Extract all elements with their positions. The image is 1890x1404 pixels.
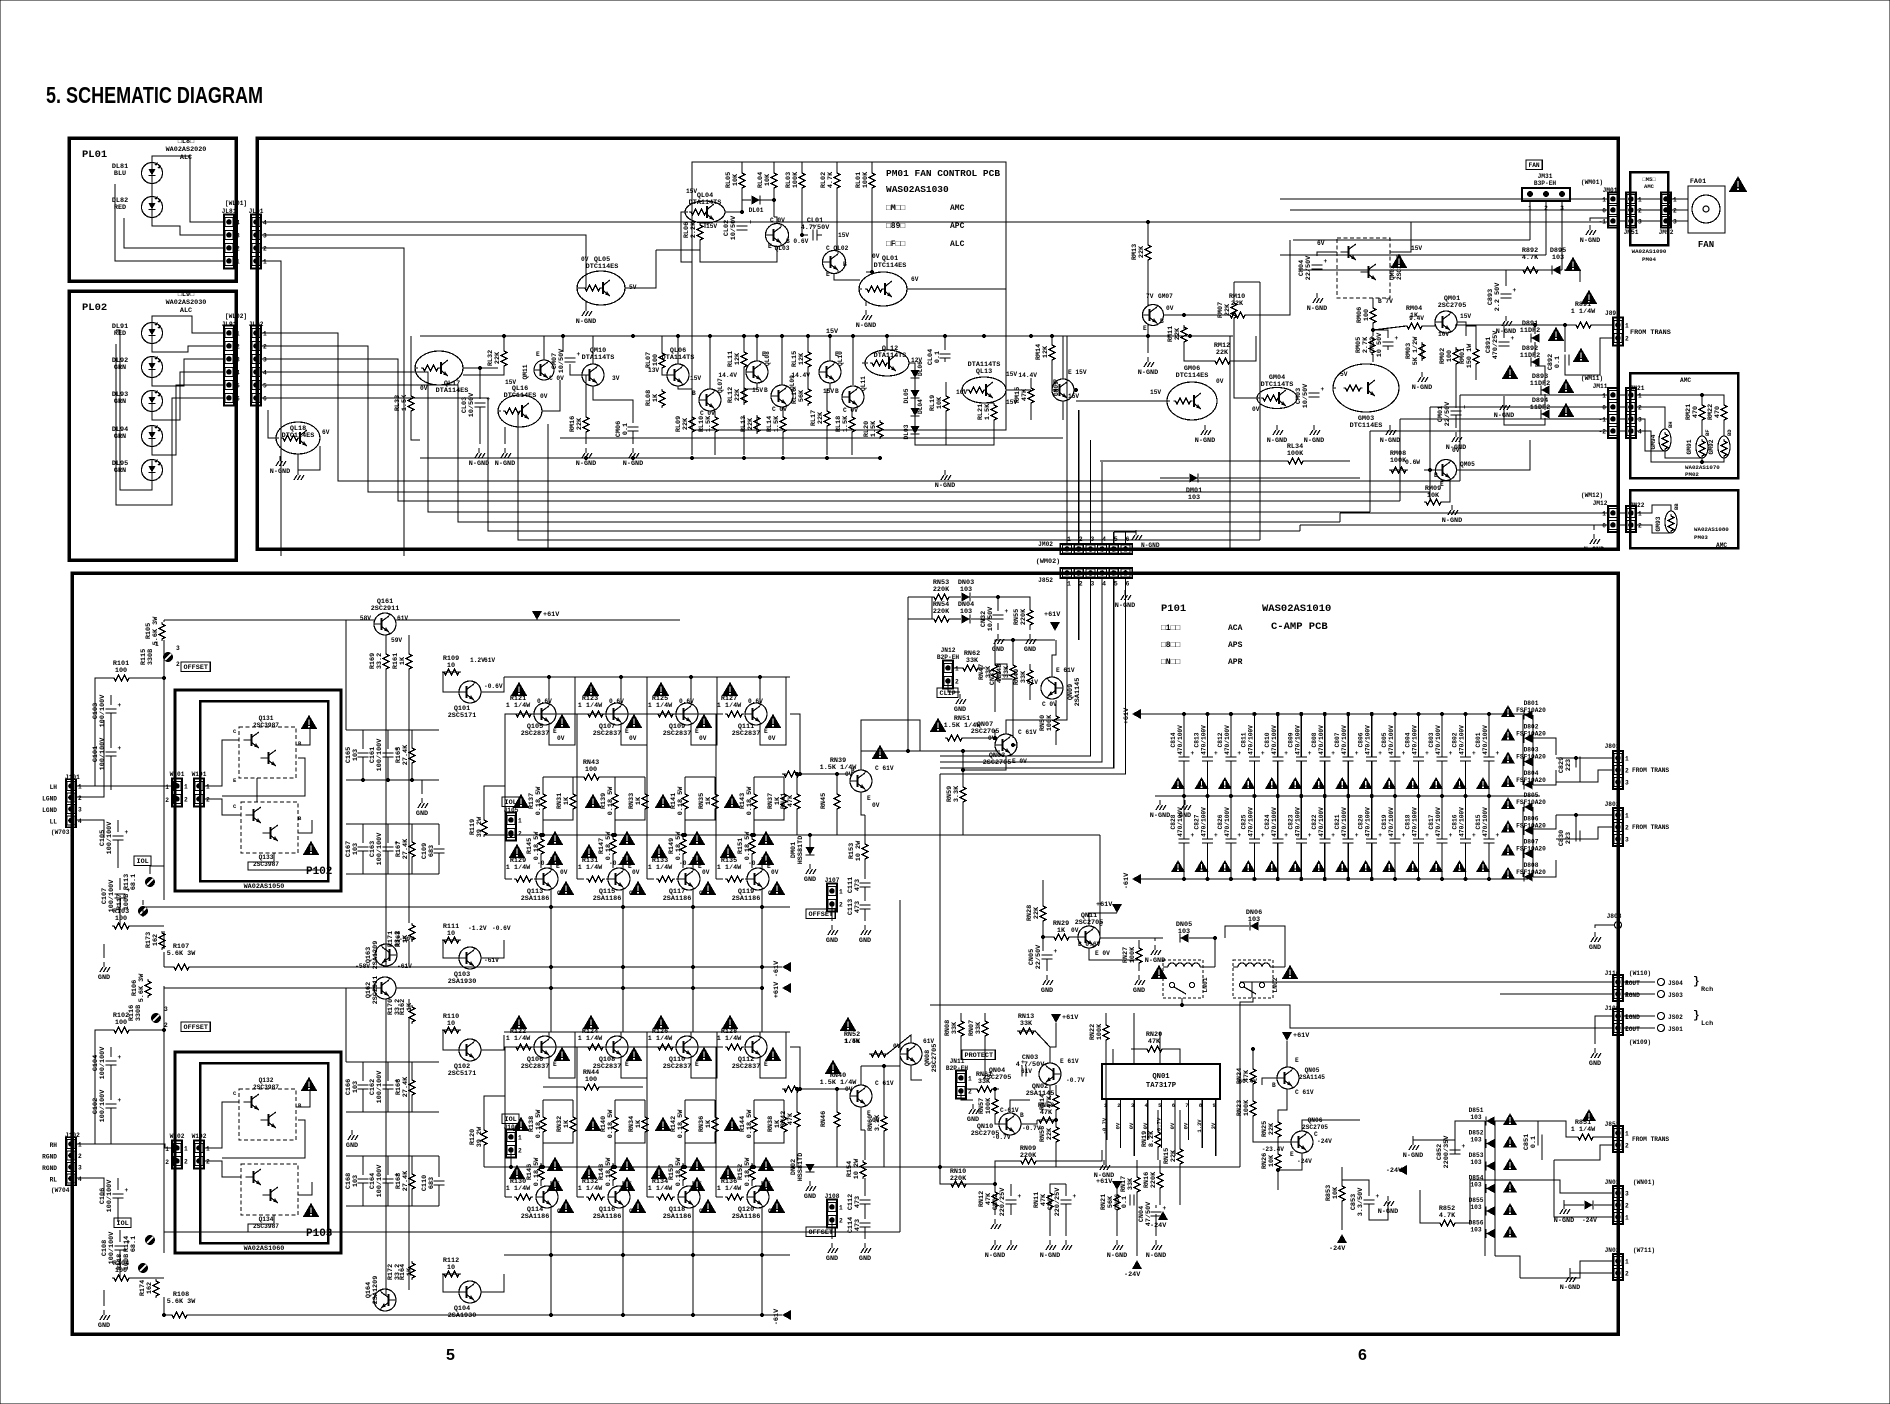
svg-text:1 1/4W: 1 1/4W bbox=[506, 864, 531, 872]
svg-text:E: E bbox=[768, 243, 772, 250]
svg-text:100/100V: 100/100V bbox=[376, 1164, 384, 1198]
svg-text:2: 2 bbox=[165, 797, 169, 804]
svg-text:LGND: LGND bbox=[42, 807, 57, 814]
svg-text:2SA1186: 2SA1186 bbox=[732, 895, 761, 903]
wire collector Q111 bbox=[759, 677, 761, 703]
svg-text:470/100V: 470/100V bbox=[1365, 725, 1372, 755]
module box PM02 bbox=[1630, 373, 1738, 478]
svg-text:E: E bbox=[536, 351, 540, 358]
svg-text:FA01: FA01 bbox=[1690, 178, 1706, 186]
svg-text:WA02AS1080: WA02AS1080 bbox=[1694, 526, 1729, 533]
svg-text:+: + bbox=[1331, 832, 1335, 839]
svg-text:IOL: IOL bbox=[505, 799, 517, 807]
svg-text:DL03: DL03 bbox=[903, 424, 910, 439]
jack JS01 bbox=[1658, 1025, 1665, 1032]
svg-text:1: 1 bbox=[184, 1146, 188, 1153]
svg-text:4: 4 bbox=[1102, 581, 1106, 588]
svg-text:5K 1/2W: 5K 1/2W bbox=[1412, 336, 1420, 365]
svg-text:100/100V: 100/100V bbox=[106, 1179, 114, 1213]
warning triangle R136 bbox=[720, 1165, 737, 1179]
svg-text:+: + bbox=[125, 829, 129, 836]
svg-text:1K: 1K bbox=[635, 1119, 643, 1128]
svg-text:6: 6 bbox=[1126, 536, 1130, 543]
svg-text:6: 6 bbox=[263, 396, 267, 403]
svg-text:0.18 5W: 0.18 5W bbox=[535, 786, 543, 815]
pin 2 QN01 bbox=[1120, 1099, 1122, 1110]
svg-text:1: 1 bbox=[206, 784, 210, 791]
wires 15V stage bbox=[503, 336, 505, 349]
svg-text:10 2W: 10 2W bbox=[855, 840, 863, 861]
svg-text:2: 2 bbox=[1625, 1143, 1629, 1150]
wire collector Q107 bbox=[620, 677, 622, 703]
warning triangle RN52 bbox=[840, 1017, 857, 1031]
svg-text:15V: 15V bbox=[826, 328, 839, 336]
ground GND JN11 bbox=[969, 1104, 979, 1114]
svg-text:2SC2837: 2SC2837 bbox=[663, 1063, 692, 1071]
ground N-GND DL03 bbox=[941, 470, 951, 480]
svg-text:E 15V: E 15V bbox=[1068, 369, 1087, 376]
svg-text:0.18 5W: 0.18 5W bbox=[605, 1157, 613, 1186]
svg-text:2SA1209: 2SA1209 bbox=[372, 1276, 380, 1305]
wires left input L bbox=[130, 677, 164, 679]
node rail mid bank bbox=[1155, 795, 1540, 797]
warning triangle R151 bbox=[758, 831, 775, 845]
wires J851 bbox=[1490, 1121, 1576, 1137]
wires P102 internal bbox=[205, 740, 239, 786]
hybrid module P102 inner bbox=[200, 701, 328, 881]
power flag +61V RN13 bbox=[1051, 1014, 1061, 1023]
svg-text:22K: 22K bbox=[1170, 1149, 1178, 1162]
svg-text:470/100V: 470/100V bbox=[1177, 807, 1184, 837]
svg-text:2: 2 bbox=[839, 1218, 843, 1225]
svg-text:2SC5171: 2SC5171 bbox=[448, 1070, 477, 1078]
svg-text:GND: GND bbox=[98, 1322, 110, 1330]
capacitor C811 470/100V bbox=[1253, 714, 1255, 757]
svg-text:2: 2 bbox=[184, 797, 188, 804]
warning triangle C822 bbox=[1312, 860, 1326, 872]
svg-text:C817: C817 bbox=[1428, 814, 1435, 829]
svg-text:B: B bbox=[851, 768, 855, 775]
capacitor C821 470/100V bbox=[1347, 796, 1349, 839]
svg-text:+: + bbox=[1018, 1193, 1022, 1200]
capacitor C808 470/100V bbox=[1324, 714, 1326, 757]
svg-text:+: + bbox=[1191, 832, 1195, 839]
svg-text:B: B bbox=[298, 740, 302, 747]
ground N-GND DN05 bbox=[1151, 945, 1161, 955]
capacitor C820 470/100V bbox=[1371, 796, 1373, 839]
svg-text:+: + bbox=[577, 351, 581, 358]
svg-text:2: 2 bbox=[206, 797, 210, 804]
svg-text:1: 1 bbox=[155, 641, 159, 648]
svg-text:1 1/4W: 1 1/4W bbox=[578, 1185, 603, 1193]
main board outline bottom bbox=[72, 573, 1618, 1334]
svg-text:C: C bbox=[1099, 921, 1103, 928]
svg-text:+61V: +61V bbox=[773, 981, 781, 998]
svg-text:1: 1 bbox=[955, 666, 959, 673]
svg-text:E 61V: E 61V bbox=[1056, 667, 1075, 674]
svg-text:100/100V: 100/100V bbox=[376, 1070, 384, 1104]
svg-text:WA02AS1090: WA02AS1090 bbox=[1632, 248, 1667, 255]
svg-text:IOL: IOL bbox=[137, 858, 149, 866]
svg-text:C815: C815 bbox=[1475, 814, 1482, 829]
wire JL01 pin4 bus bbox=[262, 221, 1607, 223]
svg-text:22K: 22K bbox=[747, 417, 755, 430]
svg-text:162: 162 bbox=[146, 1282, 154, 1294]
svg-text:N-GND: N-GND bbox=[495, 460, 515, 468]
wires resistor row R 3 bbox=[753, 1100, 755, 1115]
svg-text:1K: 1K bbox=[563, 796, 571, 805]
inter-bank column wires bbox=[550, 907, 552, 1032]
svg-text:15V: 15V bbox=[1150, 389, 1161, 396]
svg-text:BH: BH bbox=[1667, 421, 1674, 428]
wire Q120 bbox=[761, 1181, 763, 1186]
svg-text:470/100V: 470/100V bbox=[1412, 807, 1419, 837]
svg-text:10V: 10V bbox=[1438, 331, 1449, 338]
svg-text:1.5K: 1.5K bbox=[984, 403, 992, 420]
svg-text:WAS02AS1030: WAS02AS1030 bbox=[886, 184, 949, 195]
svg-text:0V: 0V bbox=[872, 802, 880, 809]
svg-text:QL11: QL11 bbox=[860, 376, 867, 391]
ground N-GND mid1 bbox=[582, 448, 592, 458]
svg-text:N-GND: N-GND bbox=[1554, 1217, 1574, 1225]
capacitor C805 470/100V bbox=[1394, 714, 1396, 757]
svg-text:1: 1 bbox=[1602, 197, 1606, 204]
wires bus to JM02 bbox=[1066, 336, 1068, 543]
warning triangle R150 pair bbox=[689, 1157, 706, 1171]
svg-text:2: 2 bbox=[184, 1159, 188, 1166]
svg-text:0V: 0V bbox=[540, 393, 548, 400]
svg-text:J851: J851 bbox=[1605, 1121, 1620, 1128]
svg-text:100: 100 bbox=[585, 766, 597, 774]
svg-text:JM52: JM52 bbox=[1659, 229, 1674, 236]
svg-text:47K: 47K bbox=[1243, 1069, 1251, 1082]
svg-text:C823: C823 bbox=[1287, 814, 1294, 829]
svg-text:FROM TRANS: FROM TRANS bbox=[1632, 1136, 1669, 1143]
ground N-GND QL05 bbox=[582, 306, 592, 316]
svg-text:GND: GND bbox=[1024, 646, 1036, 654]
svg-text:0.18 5W: 0.18 5W bbox=[533, 1157, 541, 1186]
ground N-GND CM01 bbox=[1452, 432, 1462, 442]
svg-text:GND: GND bbox=[826, 937, 838, 945]
svg-text:13V: 13V bbox=[648, 367, 659, 374]
warning triangle R891 bbox=[1581, 290, 1598, 304]
svg-text:3.3K: 3.3K bbox=[953, 785, 961, 802]
svg-text:0.18 5W: 0.18 5W bbox=[675, 1157, 683, 1186]
svg-text:[WL01]: [WL01] bbox=[225, 200, 247, 207]
transistor Q104 2SA1930 bbox=[459, 1281, 481, 1303]
svg-text:B 7V: B 7V bbox=[1378, 298, 1393, 305]
wire LGND input bbox=[77, 720, 104, 797]
collector bus L lower bbox=[504, 906, 790, 908]
svg-text:E 61V: E 61V bbox=[1060, 1058, 1079, 1065]
svg-text:N-GND: N-GND bbox=[1580, 237, 1600, 245]
warning triangle Q119 bbox=[769, 881, 786, 895]
power rail +61V R bbox=[782, 983, 791, 993]
svg-text:+: + bbox=[1496, 750, 1500, 757]
svg-text:2: 2 bbox=[1625, 1271, 1629, 1278]
svg-text:1: 1 bbox=[1067, 581, 1071, 588]
svg-text:103: 103 bbox=[1188, 494, 1200, 502]
svg-text:470/100V: 470/100V bbox=[1482, 807, 1489, 837]
svg-text:15V: 15V bbox=[1411, 245, 1422, 252]
svg-text:-24V: -24V bbox=[1317, 1138, 1332, 1145]
svg-text:+: + bbox=[1331, 750, 1335, 757]
svg-text:PM01 FAN CONTROL PCB: PM01 FAN CONTROL PCB bbox=[886, 168, 1000, 179]
svg-text:61V: 61V bbox=[484, 657, 495, 664]
svg-text:E 0V: E 0V bbox=[1012, 758, 1027, 765]
svg-text:220K: 220K bbox=[1020, 608, 1028, 625]
svg-text:-1: -1 bbox=[1599, 219, 1607, 226]
svg-text:22K: 22K bbox=[682, 417, 690, 430]
svg-text:RGND: RGND bbox=[42, 1154, 57, 1161]
svg-text:C 0V: C 0V bbox=[772, 406, 787, 413]
svg-text:E: E bbox=[695, 728, 699, 735]
svg-text:QM05: QM05 bbox=[1460, 461, 1475, 468]
svg-text:0.18 5W: 0.18 5W bbox=[535, 1109, 543, 1138]
warning triangle C818 bbox=[1406, 860, 1420, 872]
warning triangle R142 bbox=[655, 1117, 672, 1131]
svg-text:3: 3 bbox=[1638, 219, 1642, 226]
column wires R lower bbox=[550, 1255, 552, 1315]
svg-text:22K: 22K bbox=[734, 388, 742, 401]
svg-text:E: E bbox=[1440, 481, 1444, 488]
svg-text:B 0.6V: B 0.6V bbox=[786, 238, 809, 245]
label PROTECT bbox=[962, 1050, 995, 1060]
pin 9 QN01 bbox=[1215, 1099, 1217, 1110]
svg-text:683: 683 bbox=[428, 1177, 436, 1189]
node rail 438 bbox=[560, 437, 1063, 439]
svg-text:2SC5171: 2SC5171 bbox=[448, 712, 477, 720]
pcb outline PM01 bbox=[692, 162, 1006, 430]
svg-text:C802: C802 bbox=[1452, 732, 1459, 747]
svg-text:33K: 33K bbox=[1020, 670, 1028, 683]
svg-text:RED: RED bbox=[114, 204, 126, 212]
warning triangle C821 bbox=[1335, 860, 1349, 872]
warning triangle R851 bbox=[1582, 1109, 1596, 1121]
svg-text:+: + bbox=[118, 702, 122, 709]
svg-text:(W704): (W704) bbox=[51, 1187, 73, 1194]
svg-text:103: 103 bbox=[1470, 1204, 1481, 1211]
svg-text:D803: D803 bbox=[1524, 747, 1539, 754]
warning triangle R133 bbox=[651, 844, 668, 858]
capacitor C818 470/100V bbox=[1418, 796, 1420, 839]
wires PL02 LEDs to JL91 bbox=[152, 316, 224, 333]
label OFFSET J107 bbox=[806, 909, 835, 919]
svg-text:0V: 0V bbox=[560, 869, 568, 876]
svg-text:1K: 1K bbox=[563, 1119, 571, 1128]
svg-text:100K: 100K bbox=[1096, 1023, 1104, 1040]
ground GND J803 bbox=[1591, 932, 1601, 942]
svg-text:GND: GND bbox=[804, 1193, 816, 1201]
grounds under QN01 bbox=[991, 1240, 1001, 1250]
svg-text:14.4V: 14.4V bbox=[1018, 372, 1037, 379]
svg-text:N-GND: N-GND bbox=[1115, 602, 1135, 610]
transistor Q112 2SC2837 bbox=[745, 1036, 767, 1058]
svg-text:68.1: 68.1 bbox=[130, 874, 138, 890]
svg-text:+: + bbox=[1214, 750, 1218, 757]
relay LN02 bbox=[1233, 960, 1273, 998]
wires J891 area bbox=[1455, 324, 1574, 326]
wires D851 block bbox=[1484, 1121, 1486, 1256]
wires JN01 bbox=[1470, 1180, 1612, 1193]
svg-text:2: 2 bbox=[165, 1159, 169, 1166]
module box PM03 bbox=[1630, 490, 1738, 548]
capacitor C806 470/100V bbox=[1371, 714, 1373, 757]
svg-text:1: 1 bbox=[184, 784, 188, 791]
svg-text:E: E bbox=[764, 728, 768, 735]
ground N-GND JN01 bbox=[1560, 1204, 1570, 1214]
wire collector Q112 bbox=[759, 1032, 761, 1036]
warning triangle Q113 bbox=[558, 881, 575, 895]
svg-text:100/100V: 100/100V bbox=[99, 1089, 107, 1123]
svg-text:2: 2 bbox=[236, 344, 240, 351]
warning triangle Q114 bbox=[558, 1199, 575, 1213]
svg-text:220K: 220K bbox=[1020, 1152, 1037, 1160]
wire GM09 to GM06 bbox=[1076, 400, 1167, 402]
svg-text:[WL02]: [WL02] bbox=[225, 313, 247, 320]
svg-text:12K: 12K bbox=[798, 352, 806, 365]
svg-text:33K: 33K bbox=[966, 657, 979, 665]
wire collector Q105 bbox=[548, 677, 550, 703]
svg-text:B: B bbox=[1160, 318, 1164, 325]
svg-text:4: 4 bbox=[78, 1176, 82, 1183]
svg-text:0.18 5W: 0.18 5W bbox=[746, 786, 754, 815]
svg-text:5: 5 bbox=[446, 1347, 455, 1364]
svg-text:DL01: DL01 bbox=[749, 207, 764, 214]
svg-text:+61V: +61V bbox=[1096, 901, 1113, 909]
svg-text:473: 473 bbox=[996, 671, 1004, 683]
svg-text:0V: 0V bbox=[768, 735, 776, 742]
svg-text:N-GND: N-GND bbox=[985, 1252, 1005, 1260]
svg-text:N-GND: N-GND bbox=[576, 460, 596, 468]
svg-text:D807: D807 bbox=[1524, 839, 1539, 846]
svg-text:C 61V: C 61V bbox=[1295, 1089, 1314, 1096]
pin 7 QN01 bbox=[1188, 1099, 1190, 1110]
svg-text:473: 473 bbox=[854, 879, 862, 891]
svg-text:15V: 15V bbox=[686, 188, 697, 195]
svg-text:1 1/4W: 1 1/4W bbox=[506, 702, 531, 710]
svg-text:10/50V: 10/50V bbox=[730, 215, 738, 240]
capacitor C819 470/100V bbox=[1394, 796, 1396, 839]
wire Q113 bbox=[550, 857, 552, 868]
ground N-GND C853 bbox=[1384, 1196, 1394, 1206]
transistor QN05 2SA1145 bbox=[1277, 1067, 1299, 1089]
svg-text:3: 3 bbox=[263, 233, 267, 240]
warning triangle C801 bbox=[1476, 777, 1490, 789]
svg-text:N-GND: N-GND bbox=[469, 460, 489, 468]
warning triangle FA01 bbox=[1729, 176, 1748, 192]
svg-text:1: 1 bbox=[236, 259, 240, 266]
diode DL03 bbox=[911, 426, 920, 434]
svg-text:-24V: -24V bbox=[1150, 1222, 1167, 1230]
svg-text:0V: 0V bbox=[1216, 378, 1224, 385]
wires PM02 bbox=[1619, 394, 1625, 396]
svg-text:22K: 22K bbox=[576, 417, 584, 430]
svg-text:J802: J802 bbox=[1605, 801, 1620, 808]
wire IOL rail L bbox=[143, 906, 510, 908]
capacitor C813 470/100V bbox=[1207, 714, 1209, 757]
svg-text:1 1/4W: 1 1/4W bbox=[648, 1035, 673, 1043]
wire LL input bbox=[77, 820, 104, 838]
svg-text:WA02AS1050: WA02AS1050 bbox=[244, 883, 285, 891]
module box PM04 bbox=[1630, 172, 1668, 245]
svg-text:+: + bbox=[1425, 750, 1429, 757]
label IOL R bbox=[114, 1218, 131, 1228]
svg-text:2: 2 bbox=[1625, 768, 1629, 775]
svg-text:E: E bbox=[867, 795, 871, 802]
svg-text:(W703): (W703) bbox=[51, 829, 73, 836]
svg-text:2SC2837: 2SC2837 bbox=[732, 1063, 761, 1071]
svg-text:2SC2705: 2SC2705 bbox=[931, 1044, 939, 1073]
ground N-GND QL16 bbox=[501, 448, 511, 458]
power rail -61V L bbox=[782, 962, 791, 972]
warning triangle R134 bbox=[651, 1165, 668, 1179]
svg-text:AMC: AMC bbox=[1680, 377, 1691, 384]
svg-text:D856: D856 bbox=[1469, 1220, 1484, 1227]
svg-text:5: 5 bbox=[236, 383, 240, 390]
svg-text:100: 100 bbox=[1363, 309, 1371, 321]
svg-text:470/100V: 470/100V bbox=[1365, 807, 1372, 837]
node 15V rail bbox=[420, 335, 1233, 337]
transistor Q118 2SA1186 bbox=[678, 1186, 700, 1208]
wire DL82 to JL81 bbox=[152, 218, 224, 235]
label OFFSET R bbox=[181, 1022, 210, 1032]
svg-text:RN45: RN45 bbox=[820, 793, 828, 809]
transistor QM11 bbox=[534, 360, 554, 380]
svg-text:2SA1145: 2SA1145 bbox=[1074, 678, 1082, 707]
power flag -24V R853 bbox=[1337, 1234, 1347, 1243]
svg-text:100/100V: 100/100V bbox=[376, 832, 384, 866]
svg-text:1: 1 bbox=[263, 331, 267, 338]
warning triangle RN40 bbox=[825, 1060, 842, 1074]
wire bus QN03 to relay bbox=[861, 720, 920, 751]
ground N-GND QL18 bbox=[276, 456, 286, 466]
power flag +61V QN11 bbox=[1112, 904, 1122, 913]
svg-text:+61V: +61V bbox=[1096, 1178, 1113, 1186]
svg-text:N-GND: N-GND bbox=[1138, 369, 1158, 377]
transistor QN02 2SA1145 bbox=[1039, 1063, 1061, 1085]
ground GND JN12 bbox=[956, 694, 966, 704]
svg-text:3: 3 bbox=[176, 645, 180, 652]
svg-text:C820: C820 bbox=[1358, 814, 1365, 829]
svg-text:JN12: JN12 bbox=[941, 647, 956, 654]
capacitor C815 470/100V bbox=[1488, 796, 1490, 839]
svg-text:3: 3 bbox=[236, 357, 240, 364]
svg-text:GND: GND bbox=[804, 876, 816, 884]
transistor QL11 bbox=[842, 386, 864, 408]
warning triangle Q116 bbox=[630, 1199, 647, 1213]
wires J801 J802 bbox=[1556, 757, 1612, 759]
svg-text:2: 2 bbox=[1638, 405, 1642, 412]
svg-text:D805: D805 bbox=[1524, 792, 1539, 799]
ground N-GND GM03 bbox=[1386, 425, 1396, 435]
svg-text:APR: APR bbox=[1228, 658, 1243, 667]
ground GND RN27 bbox=[1135, 975, 1145, 985]
svg-text:APS: APS bbox=[1228, 641, 1243, 650]
svg-text:1: 1 bbox=[1638, 511, 1642, 518]
svg-text:15V: 15V bbox=[752, 387, 763, 394]
main board outline top bbox=[257, 138, 1618, 549]
svg-text:100K: 100K bbox=[862, 171, 870, 188]
wire ROUT bus bbox=[1240, 981, 1612, 983]
svg-text:1 1/4W: 1 1/4W bbox=[648, 1185, 673, 1193]
wires resistor row R 1 bbox=[614, 1100, 616, 1115]
connector JM51 bbox=[1626, 193, 1636, 228]
svg-text:4: 4 bbox=[1102, 536, 1106, 543]
wire Q115 bbox=[622, 857, 624, 868]
warning triangle R123 bbox=[583, 682, 600, 696]
svg-text:B: B bbox=[835, 388, 839, 395]
